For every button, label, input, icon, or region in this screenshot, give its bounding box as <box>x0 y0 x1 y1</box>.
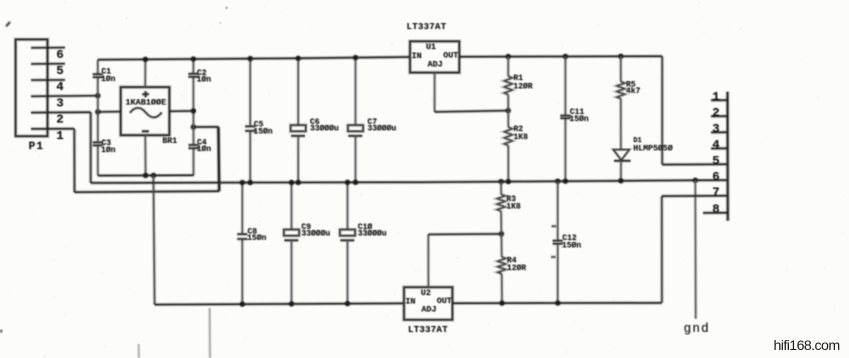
svg-text:3: 3 <box>56 96 63 110</box>
svg-text:1Øn: 1Øn <box>101 75 116 84</box>
svg-text:15Øn: 15Øn <box>247 234 266 243</box>
svg-text:33ØØØu: 33ØØØu <box>358 229 387 238</box>
svg-text:gnd: gnd <box>684 322 710 336</box>
svg-text:33ØØØu: 33ØØØu <box>301 229 330 238</box>
svg-text:33ØØØu: 33ØØØu <box>310 124 339 133</box>
svg-text:15Øn: 15Øn <box>253 127 272 136</box>
svg-text:U2: U2 <box>421 288 431 298</box>
svg-text:OUT: OUT <box>443 51 458 61</box>
svg-text:4k7: 4k7 <box>626 87 641 96</box>
svg-text:U1: U1 <box>426 42 436 52</box>
svg-text:IN: IN <box>412 51 422 61</box>
svg-text:LT337AT: LT337AT <box>407 22 447 32</box>
svg-text:3: 3 <box>712 122 719 136</box>
svg-text:1Øn: 1Øn <box>197 145 212 154</box>
svg-text:hifi168.com: hifi168.com <box>774 338 840 354</box>
svg-text:5: 5 <box>56 64 63 78</box>
svg-text:2: 2 <box>712 106 719 120</box>
svg-text:ADJ: ADJ <box>428 59 443 69</box>
svg-text:HLMP5Ø5Ø: HLMP5Ø5Ø <box>633 143 672 153</box>
svg-text:P1: P1 <box>29 141 45 153</box>
svg-text:4: 4 <box>56 80 64 94</box>
svg-text:1Øn: 1Øn <box>197 76 212 85</box>
svg-text:LT337AT: LT337AT <box>408 325 448 335</box>
svg-text:12ØR: 12ØR <box>513 82 532 91</box>
svg-text:1Øn: 1Øn <box>101 146 116 155</box>
svg-text:1: 1 <box>56 129 63 143</box>
svg-text:15Øn: 15Øn <box>562 241 581 250</box>
svg-text:1KAB1ØØE: 1KAB1ØØE <box>125 98 166 108</box>
svg-text:1K8: 1K8 <box>506 203 521 212</box>
svg-text:OUT: OUT <box>437 296 452 306</box>
svg-text:33ØØØu: 33ØØØu <box>367 124 396 133</box>
svg-text:12ØR: 12ØR <box>507 264 526 273</box>
svg-text:ADJ: ADJ <box>421 305 436 315</box>
svg-text:2: 2 <box>56 113 63 127</box>
svg-text:4: 4 <box>712 138 720 152</box>
svg-text:6: 6 <box>56 48 63 62</box>
svg-text:5: 5 <box>712 154 719 168</box>
svg-text:1: 1 <box>712 90 719 104</box>
svg-text:BR1: BR1 <box>162 137 177 146</box>
svg-text:1K8: 1K8 <box>514 133 529 142</box>
svg-text:IN: IN <box>405 297 415 307</box>
svg-text:8: 8 <box>712 203 719 217</box>
svg-text:15Øn: 15Øn <box>569 115 588 124</box>
